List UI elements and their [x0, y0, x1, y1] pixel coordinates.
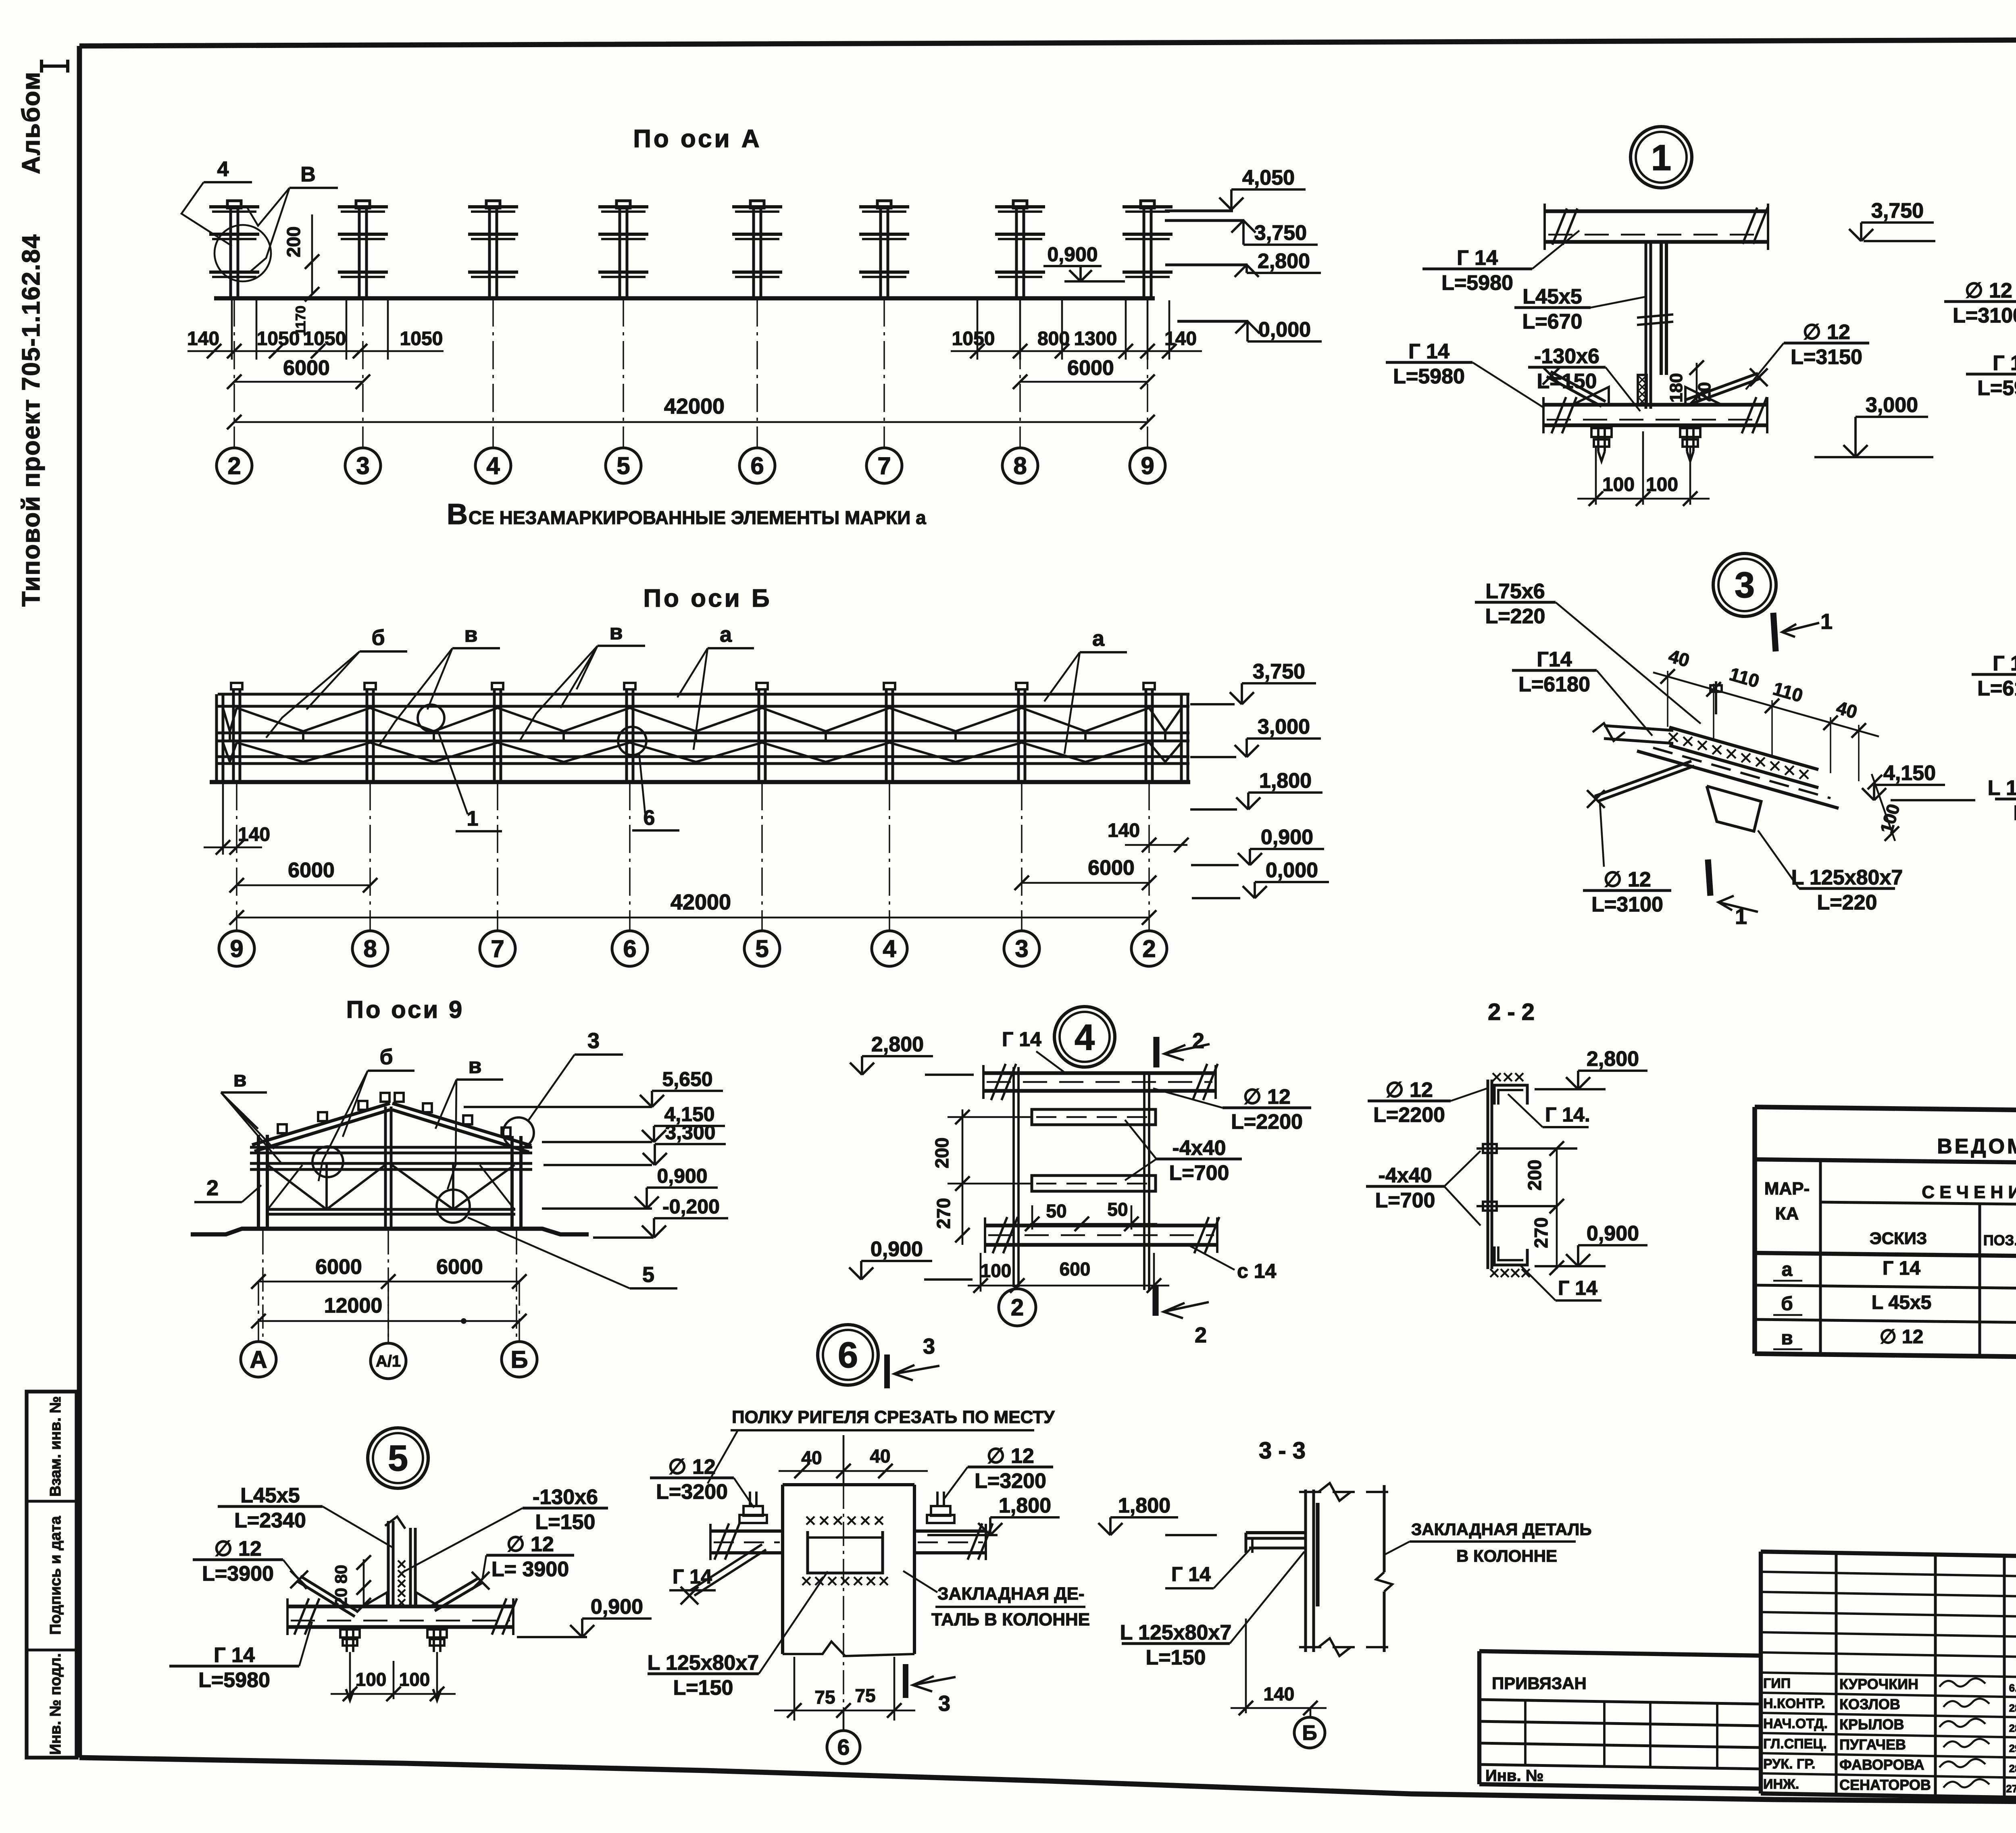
section 2-2 vertical dim 200 270 — [1556, 1147, 1558, 1269]
svg-text:Г 14: Г 14 — [1171, 1563, 1211, 1585]
svg-text:1050: 1050 — [257, 328, 300, 350]
axis A dim 42000 overall — [234, 421, 1148, 423]
element list table — [1755, 1107, 2016, 1116]
axis B post at grid 4 — [884, 683, 895, 689]
svg-text:ПОЗ.: ПОЗ. — [1983, 1232, 2016, 1248]
svg-text:L=3200: L=3200 — [656, 1480, 728, 1504]
svg-text:2: 2 — [1192, 1029, 1204, 1053]
svg-text:L 125x80x7: L 125x80x7 — [1791, 866, 1903, 889]
svg-text:1,800: 1,800 — [1259, 769, 1312, 793]
svg-text:L 125x80x7: L 125x80x7 — [1120, 1621, 1232, 1644]
detail 6 section mark 3 top — [884, 1354, 890, 1388]
svg-text:5: 5 — [388, 1438, 408, 1479]
svg-text:-130x6: -130x6 — [533, 1486, 598, 1509]
svg-text:∅ 12: ∅ 12 — [506, 1533, 554, 1556]
detail 1 plate -130x6 hatched — [1638, 375, 1647, 405]
svg-text:4: 4 — [1075, 1017, 1095, 1058]
svg-text:1,800: 1,800 — [1118, 1494, 1170, 1517]
svg-text:Г 14: Г 14 — [1883, 1258, 1920, 1279]
svg-text:1: 1 — [1820, 610, 1833, 634]
detail 6 bubble — [818, 1325, 878, 1385]
axis B post at grid 9 — [231, 683, 242, 689]
svg-text:3: 3 — [356, 452, 369, 479]
svg-text:6: 6 — [644, 806, 655, 830]
svg-text:1: 1 — [1735, 905, 1747, 929]
svg-text:200: 200 — [931, 1138, 952, 1169]
svg-text:4: 4 — [486, 452, 500, 479]
svg-text:с 14: с 14 — [1237, 1260, 1277, 1282]
axis9 grid bubbles A, A/1, B — [241, 1342, 276, 1377]
svg-text:б: б — [379, 1045, 393, 1069]
svg-text:1050: 1050 — [303, 328, 346, 350]
detail 3 left channel stub — [1604, 726, 1673, 730]
axis A ground line 0.000 — [214, 296, 1155, 300]
svg-text:-4x40: -4x40 — [1173, 1136, 1226, 1160]
svg-text:75: 75 — [855, 1685, 875, 1706]
axis B chords horizontal lines — [218, 693, 1189, 696]
svg-text:L 125x80x7: L 125x80x7 — [648, 1651, 759, 1675]
svg-text:L 45x5: L 45x5 — [1872, 1292, 1932, 1313]
svg-text:0,000: 0,000 — [1266, 859, 1318, 882]
svg-text:ТАЛЬ В КОЛОННЕ: ТАЛЬ В КОЛОННЕ — [931, 1610, 1090, 1629]
svg-text:Г 14.: Г 14. — [1545, 1103, 1590, 1126]
svg-text:Инв. № подл.: Инв. № подл. — [47, 1653, 64, 1755]
svg-text:1300: 1300 — [1074, 328, 1117, 350]
detail 4 section marks 2 — [1153, 1037, 1159, 1067]
section 3-3 bracket console — [1246, 1531, 1306, 1534]
svg-text:L=670: L=670 — [1522, 310, 1583, 333]
left margin album roman numeral I — [40, 60, 43, 73]
svg-text:КА: КА — [1775, 1204, 1799, 1223]
svg-text:Г 14: Г 14 — [1993, 652, 2016, 675]
detail 5 gussets — [363, 1592, 387, 1606]
svg-text:L 125x80x7: L 125x80x7 — [1988, 776, 2016, 800]
axis A fachwerk post at grid 7 — [877, 201, 891, 208]
detail 4 rungs -4x40 — [1032, 1109, 1156, 1125]
svg-text:40: 40 — [870, 1446, 890, 1467]
svg-text:100: 100 — [399, 1669, 430, 1690]
svg-text:3: 3 — [923, 1334, 935, 1359]
svg-text:Г 14: Г 14 — [1408, 340, 1450, 363]
axis B post at grid 5 — [756, 683, 768, 689]
detail 6 dim 40 40 — [779, 1470, 928, 1472]
svg-text:9: 9 — [1141, 452, 1154, 479]
detail 1 bubble — [1631, 127, 1692, 188]
svg-text:L=220: L=220 — [1485, 605, 1545, 628]
svg-text:-4x40: -4x40 — [1379, 1164, 1432, 1187]
svg-text:L=3100: L=3100 — [1953, 304, 2016, 327]
svg-text:3: 3 — [587, 1029, 600, 1053]
detail 5 central post — [387, 1521, 390, 1606]
svg-text:ВЕДОМОСТЬ ЭЛЕМЕНТОВ: ВЕДОМОСТЬ ЭЛЕМЕНТОВ — [1937, 1135, 2016, 1158]
axis B grid centerlines — [236, 782, 237, 930]
axis9 truss diagonals — [268, 1165, 385, 1209]
svg-text:Г 14: Г 14 — [1558, 1277, 1597, 1299]
svg-text:1050: 1050 — [952, 328, 995, 350]
svg-text:4,150: 4,150 — [1883, 761, 1936, 785]
svg-text:2,800: 2,800 — [1258, 250, 1310, 273]
axis A dimension row 1 left: 140,1050,1050,1050 — [231, 300, 233, 360]
title block: signature grid — [1761, 1552, 2016, 1556]
section 2-2 rung ticks — [1477, 1147, 1577, 1150]
axis B post at grid 3 — [1016, 683, 1027, 689]
svg-text:Г 14: Г 14 — [214, 1644, 255, 1667]
detail 1 dim 100 100 — [1595, 447, 1597, 505]
svg-text:Взам. инв. №: Взам. инв. № — [47, 1396, 64, 1496]
svg-text:50: 50 — [1046, 1201, 1066, 1221]
detail 1 dims 180 20 vertical — [1696, 363, 1698, 405]
svg-text:ПОЛКУ РИГЕЛЯ СРЕЗАТЬ ПО МЕСТУ: ПОЛКУ РИГЕЛЯ СРЕЗАТЬ ПО МЕСТУ — [732, 1407, 1055, 1427]
detail 3 hatch strip — [1669, 733, 1678, 742]
svg-text:6000: 6000 — [1067, 356, 1114, 380]
svg-text:L=2200: L=2200 — [1231, 1110, 1303, 1134]
svg-text:6: 6 — [750, 452, 764, 479]
svg-text:а: а — [720, 622, 732, 647]
detail 3 top bolt — [1715, 681, 1717, 714]
svg-text:5: 5 — [755, 935, 768, 962]
detail 5 dims 20 80 — [363, 1559, 365, 1606]
svg-text:L=700: L=700 — [1375, 1189, 1435, 1212]
axis A fachwerk post at grid 5 — [616, 201, 630, 208]
svg-text:КУРОЧКИН: КУРОЧКИН — [1839, 1676, 1918, 1692]
svg-text:100: 100 — [1646, 474, 1678, 495]
title block: attachment table Privyazan — [1479, 1651, 1761, 1656]
svg-text:4: 4 — [883, 935, 896, 962]
svg-text:270: 270 — [1531, 1217, 1552, 1248]
axis A grid centerlines — [233, 298, 235, 447]
svg-text:29.2.74: 29.2.74 — [2009, 1742, 2016, 1754]
svg-text:3: 3 — [1735, 565, 1755, 605]
detail 3 slanted purlin assembly — [1669, 727, 1818, 770]
svg-text:Б: Б — [1302, 1721, 1317, 1745]
detail 4 dims 200 270 — [962, 1109, 964, 1245]
axis A dim 6000 right — [1020, 381, 1148, 383]
axis B end columns — [215, 694, 218, 782]
svg-text:L=3150: L=3150 — [1791, 345, 1862, 369]
svg-text:7: 7 — [491, 935, 504, 962]
detail 1 bottom beam 3.000 girt — [1543, 403, 1767, 406]
axis B detail circle 1 — [418, 705, 444, 731]
detail 4 bottom girt 0.900 — [985, 1223, 1217, 1227]
section 2-2 bottom bracket channel — [1494, 1246, 1527, 1265]
svg-text:600: 600 — [1060, 1259, 1091, 1280]
svg-text:НАЧ.ОТД.: НАЧ.ОТД. — [1763, 1716, 1828, 1731]
axis A fachwerk post at grid 2 — [227, 201, 241, 208]
svg-text:28.2.84: 28.2.84 — [2009, 1722, 2016, 1734]
svg-text:5: 5 — [616, 452, 630, 479]
svg-text:L=150: L=150 — [1146, 1646, 1206, 1669]
svg-text:L=3100: L=3100 — [1591, 893, 1663, 916]
svg-text:8: 8 — [363, 935, 377, 962]
detail 5 hatch plate -130x6 — [398, 1560, 405, 1568]
svg-text:0,900: 0,900 — [871, 1238, 923, 1261]
svg-text:6000: 6000 — [436, 1255, 483, 1279]
svg-text:6: 6 — [838, 1335, 858, 1375]
svg-text:∅ 12: ∅ 12 — [987, 1444, 1034, 1468]
svg-text:По оси Б: По оси Б — [643, 585, 772, 612]
svg-text:3,750: 3,750 — [1253, 660, 1305, 683]
axis B post at grid 7 — [492, 683, 503, 689]
svg-text:L45x5: L45x5 — [1522, 285, 1582, 308]
svg-text:0,000: 0,000 — [1258, 318, 1311, 341]
svg-text:100: 100 — [1602, 474, 1635, 495]
svg-text:А/1: А/1 — [376, 1352, 401, 1370]
axis9 dims 6000 6000 — [258, 1281, 519, 1283]
svg-text:Г 14: Г 14 — [1002, 1028, 1041, 1051]
svg-text:а: а — [1782, 1259, 1793, 1280]
svg-text:Г 14: Г 14 — [673, 1565, 712, 1588]
svg-text:А: А — [250, 1346, 267, 1373]
svg-text:По оси 9: По оси 9 — [346, 996, 464, 1023]
svg-text:3,000: 3,000 — [1866, 393, 1918, 417]
svg-text:L=220: L=220 — [1817, 891, 1877, 914]
svg-text:в: в — [464, 622, 477, 647]
axis A fachwerk post at grid 3 — [356, 201, 370, 208]
svg-text:3: 3 — [938, 1692, 950, 1716]
detail 4 dims 50 50 — [1030, 1223, 1157, 1225]
svg-text:L=6180: L=6180 — [1977, 677, 2016, 700]
axis B grid bubbles 9-2 — [219, 931, 254, 966]
axis B dim 6000 left — [237, 884, 370, 886]
svg-text:2: 2 — [1011, 1294, 1024, 1321]
svg-text:ГЛ.СПЕЦ.: ГЛ.СПЕЦ. — [1763, 1736, 1827, 1752]
svg-text:27.02.84: 27.02.84 — [2006, 1783, 2016, 1795]
svg-text:3: 3 — [1015, 935, 1028, 962]
svg-text:б: б — [1781, 1293, 1793, 1315]
svg-text:8: 8 — [1013, 452, 1027, 479]
svg-text:3,000: 3,000 — [1258, 715, 1310, 739]
axis A fachwerk post at grid 9 — [1141, 201, 1154, 208]
svg-text:2: 2 — [1142, 935, 1156, 962]
svg-text:СЕНАТОРОВ: СЕНАТОРОВ — [1839, 1777, 1931, 1793]
detail 3 bubble — [1713, 553, 1776, 616]
svg-text:L=220: L=220 — [2014, 801, 2016, 825]
svg-text:L=700: L=700 — [1169, 1161, 1229, 1185]
axis B ground line — [210, 780, 1190, 784]
axis A right roof edge lines — [1165, 210, 1233, 212]
detail 5 dim 100 100 — [331, 1693, 456, 1695]
svg-text:∅ 12: ∅ 12 — [1880, 1326, 1924, 1348]
svg-text:в: в — [233, 1067, 246, 1091]
detail 6 section mark 3 bottom — [903, 1664, 908, 1698]
svg-text:∅ 12: ∅ 12 — [1803, 320, 1850, 344]
axis A dim 6000 left — [234, 381, 363, 383]
svg-text:L=3200: L=3200 — [975, 1469, 1046, 1493]
detail 6 girts left and right — [710, 1529, 783, 1533]
detail 6 embedded bracket — [808, 1531, 883, 1573]
detail 3 section mark 1 bottom — [1708, 859, 1710, 896]
section 3-3 grid bubble B — [1310, 1708, 1312, 1717]
detail 1 top beam 3.750 girt — [1545, 209, 1768, 213]
axis B post at grid 2 — [1143, 683, 1155, 689]
svg-text:МАР-: МАР- — [1764, 1179, 1810, 1198]
axis A detail circle on post 2 — [215, 225, 271, 281]
detail 5 base girt — [287, 1604, 513, 1608]
detail 3 dim 100 — [1872, 774, 1895, 841]
detail 3 section mark 1 top — [1773, 613, 1776, 651]
svg-text:Б: Б — [510, 1346, 528, 1373]
svg-text:в: в — [1781, 1327, 1793, 1349]
svg-text:ФАВОРОВА: ФАВОРОВА — [1839, 1756, 1924, 1773]
svg-text:200: 200 — [1524, 1160, 1545, 1191]
detail 4 grid bubble 2 — [1016, 1286, 1018, 1288]
detail 3 slanted dims 40 110 110 40 — [1653, 672, 1879, 737]
svg-text:2,800: 2,800 — [871, 1033, 924, 1056]
svg-text:2 - 2: 2 - 2 — [1488, 999, 1535, 1025]
svg-text:0,900: 0,900 — [1261, 826, 1313, 849]
axis B dim 140 left — [222, 784, 224, 855]
axis A fachwerk post at grid 6 — [750, 201, 764, 208]
svg-text:в: в — [609, 620, 623, 644]
svg-text:4: 4 — [217, 158, 229, 181]
axis9 detail circles — [312, 1146, 343, 1177]
section 3-3 embedded plate — [1316, 1503, 1319, 1606]
svg-text:L=150: L=150 — [673, 1676, 733, 1700]
detail 6 column rectangle — [783, 1483, 914, 1486]
svg-text:20: 20 — [1695, 382, 1714, 402]
svg-text:-130x6: -130x6 — [1534, 345, 1599, 368]
svg-text:140: 140 — [1164, 328, 1197, 350]
svg-text:3,300: 3,300 — [665, 1121, 715, 1144]
svg-text:L=2340: L=2340 — [234, 1509, 306, 1532]
svg-text:L=5980: L=5980 — [1441, 271, 1513, 295]
svg-text:1050: 1050 — [400, 328, 443, 350]
svg-text:2: 2 — [206, 1176, 219, 1200]
axis B dim 42000 — [237, 917, 1149, 919]
svg-text:L=3900: L=3900 — [202, 1562, 274, 1585]
detail 4 vertical rods d12 — [1012, 1067, 1015, 1287]
section 2-2 vertical rod — [1487, 1080, 1489, 1269]
svg-text:L=6180: L=6180 — [1518, 673, 1590, 696]
svg-text:800: 800 — [1037, 328, 1070, 350]
svg-text:С Е Ч Е Н И Е: С Е Ч Е Н И Е — [1922, 1182, 2016, 1202]
axis B truss diagonals — [223, 708, 237, 731]
svg-text:140: 140 — [1108, 820, 1140, 841]
svg-text:6000: 6000 — [315, 1255, 362, 1279]
svg-text:6000: 6000 — [288, 859, 335, 882]
svg-text:180: 180 — [1666, 373, 1686, 402]
svg-text:L=150: L=150 — [1537, 370, 1597, 393]
svg-text:L=5980: L=5980 — [198, 1669, 270, 1692]
svg-text:2: 2 — [227, 452, 241, 479]
svg-text:∅ 12: ∅ 12 — [1385, 1078, 1433, 1102]
svg-text:0,900: 0,900 — [591, 1595, 643, 1619]
detail 6 bolts on girts — [739, 1515, 767, 1523]
axis9 dim 12000 — [258, 1320, 519, 1322]
svg-text:ГИП: ГИП — [1763, 1676, 1791, 1691]
svg-text:L=2200: L=2200 — [1373, 1103, 1445, 1127]
svg-text:270: 270 — [933, 1198, 954, 1229]
svg-text:Н.КОНТР.: Н.КОНТР. — [1763, 1696, 1825, 1711]
detail 4 top girt 2.800 — [983, 1071, 1216, 1075]
section 2-2 top bracket channel — [1494, 1085, 1527, 1105]
svg-text:6000: 6000 — [283, 356, 330, 380]
svg-text:ИНЖ.: ИНЖ. — [1763, 1777, 1799, 1792]
svg-text:3,750: 3,750 — [1871, 199, 1924, 223]
svg-text:∅ 12: ∅ 12 — [1243, 1085, 1291, 1109]
detail 5 bubble — [368, 1428, 428, 1488]
svg-text:∅ 12: ∅ 12 — [668, 1455, 716, 1479]
svg-text:2,800: 2,800 — [1587, 1047, 1639, 1071]
svg-text:ПУГАЧЕВ: ПУГАЧЕВ — [1839, 1736, 1906, 1753]
svg-text:В: В — [300, 163, 316, 186]
svg-text:Г14: Г14 — [1537, 648, 1572, 671]
svg-text:2: 2 — [1195, 1323, 1207, 1347]
axis9 purlin squares on roof — [278, 1124, 287, 1133]
svg-text:1,800: 1,800 — [999, 1494, 1051, 1517]
svg-text:28.2.84: 28.2.84 — [2009, 1702, 2016, 1714]
svg-text:50: 50 — [1107, 1199, 1128, 1220]
svg-text:ЗАКЛАДНАЯ ДЕ-: ЗАКЛАДНАЯ ДЕ- — [937, 1584, 1085, 1604]
svg-text:6: 6 — [623, 935, 636, 962]
section 3-3 dim 140 — [1245, 1619, 1247, 1713]
svg-text:КРЫЛОВ: КРЫЛОВ — [1839, 1716, 1904, 1733]
svg-text:42000: 42000 — [664, 394, 725, 418]
svg-text:ПРИВЯЗАН: ПРИВЯЗАН — [1492, 1674, 1587, 1693]
svg-text:6.03.84: 6.03.84 — [2009, 1682, 2016, 1694]
svg-text:3,750: 3,750 — [1254, 221, 1307, 245]
section 3-3 column lines — [1304, 1490, 1307, 1652]
svg-text:∅ 12: ∅ 12 — [1965, 279, 2012, 302]
svg-text:L=5980: L=5980 — [1977, 377, 2016, 400]
svg-text:Инв. №: Инв. № — [1485, 1767, 1543, 1785]
axis A fachwerk post at grid 8 — [1013, 201, 1027, 208]
detail 1 post channel with angle — [1645, 242, 1647, 409]
svg-text:СЕ НЕЗАМАРКИРОВАННЫЕ ЭЛЕМЕНТ: СЕ НЕЗАМАРКИРОВАННЫЕ ЭЛЕМЕНТЫ МАРКИ а — [469, 507, 926, 528]
axis B dim 6000 right — [1022, 882, 1149, 884]
svg-text:0,900: 0,900 — [657, 1165, 707, 1187]
svg-text:3 - 3: 3 - 3 — [1259, 1438, 1306, 1464]
svg-text:Г 14: Г 14 — [1993, 352, 2016, 375]
detail 3 diagonal rod — [1595, 761, 1691, 796]
svg-text:5: 5 — [642, 1263, 654, 1287]
svg-text:140: 140 — [187, 328, 219, 350]
svg-text:4,050: 4,050 — [1242, 166, 1295, 189]
svg-text:а: а — [1092, 626, 1105, 651]
svg-text:∅ 12: ∅ 12 — [1604, 868, 1651, 891]
svg-text:в: в — [468, 1054, 481, 1078]
detail 5 anchor bolts — [346, 1627, 348, 1652]
svg-text:7: 7 — [877, 452, 891, 479]
axis9 eaves and chords — [250, 1146, 532, 1149]
axis B post at grid 6 — [624, 683, 635, 689]
detail 4 bubble — [1054, 1007, 1115, 1067]
svg-text:100: 100 — [981, 1260, 1012, 1281]
svg-text:Альбом: Альбом — [17, 71, 45, 175]
svg-text:200: 200 — [283, 227, 304, 258]
detail 4 dims 100 600 — [980, 1253, 982, 1292]
svg-text:1: 1 — [1651, 138, 1671, 178]
svg-text:0,900: 0,900 — [1047, 243, 1098, 266]
detail 1 anchor bolts — [1597, 425, 1599, 451]
svg-text:100: 100 — [356, 1669, 387, 1690]
svg-text:∅ 12: ∅ 12 — [214, 1537, 262, 1560]
svg-text:1: 1 — [467, 807, 479, 830]
detail 6 grid bubble 6 — [843, 1710, 845, 1731]
svg-text:L=150: L=150 — [535, 1511, 596, 1534]
svg-text:L75x6: L75x6 — [1485, 580, 1545, 603]
axis9 grid centerlines — [262, 1230, 264, 1342]
detail 3 gusset trapezoid — [1707, 786, 1761, 831]
axis9 base ground line with breaks — [191, 1229, 589, 1234]
axis9 gable roof slopes — [252, 1103, 390, 1145]
svg-text:В: В — [447, 498, 468, 531]
axis9 columns — [257, 1135, 260, 1230]
svg-text:20: 20 — [331, 1588, 350, 1607]
svg-text:РУК. ГР.: РУК. ГР. — [1763, 1756, 1815, 1772]
axis A fachwerk post at grid 4 — [486, 201, 500, 208]
detail 1 diagonal tie rods — [1547, 377, 1602, 406]
